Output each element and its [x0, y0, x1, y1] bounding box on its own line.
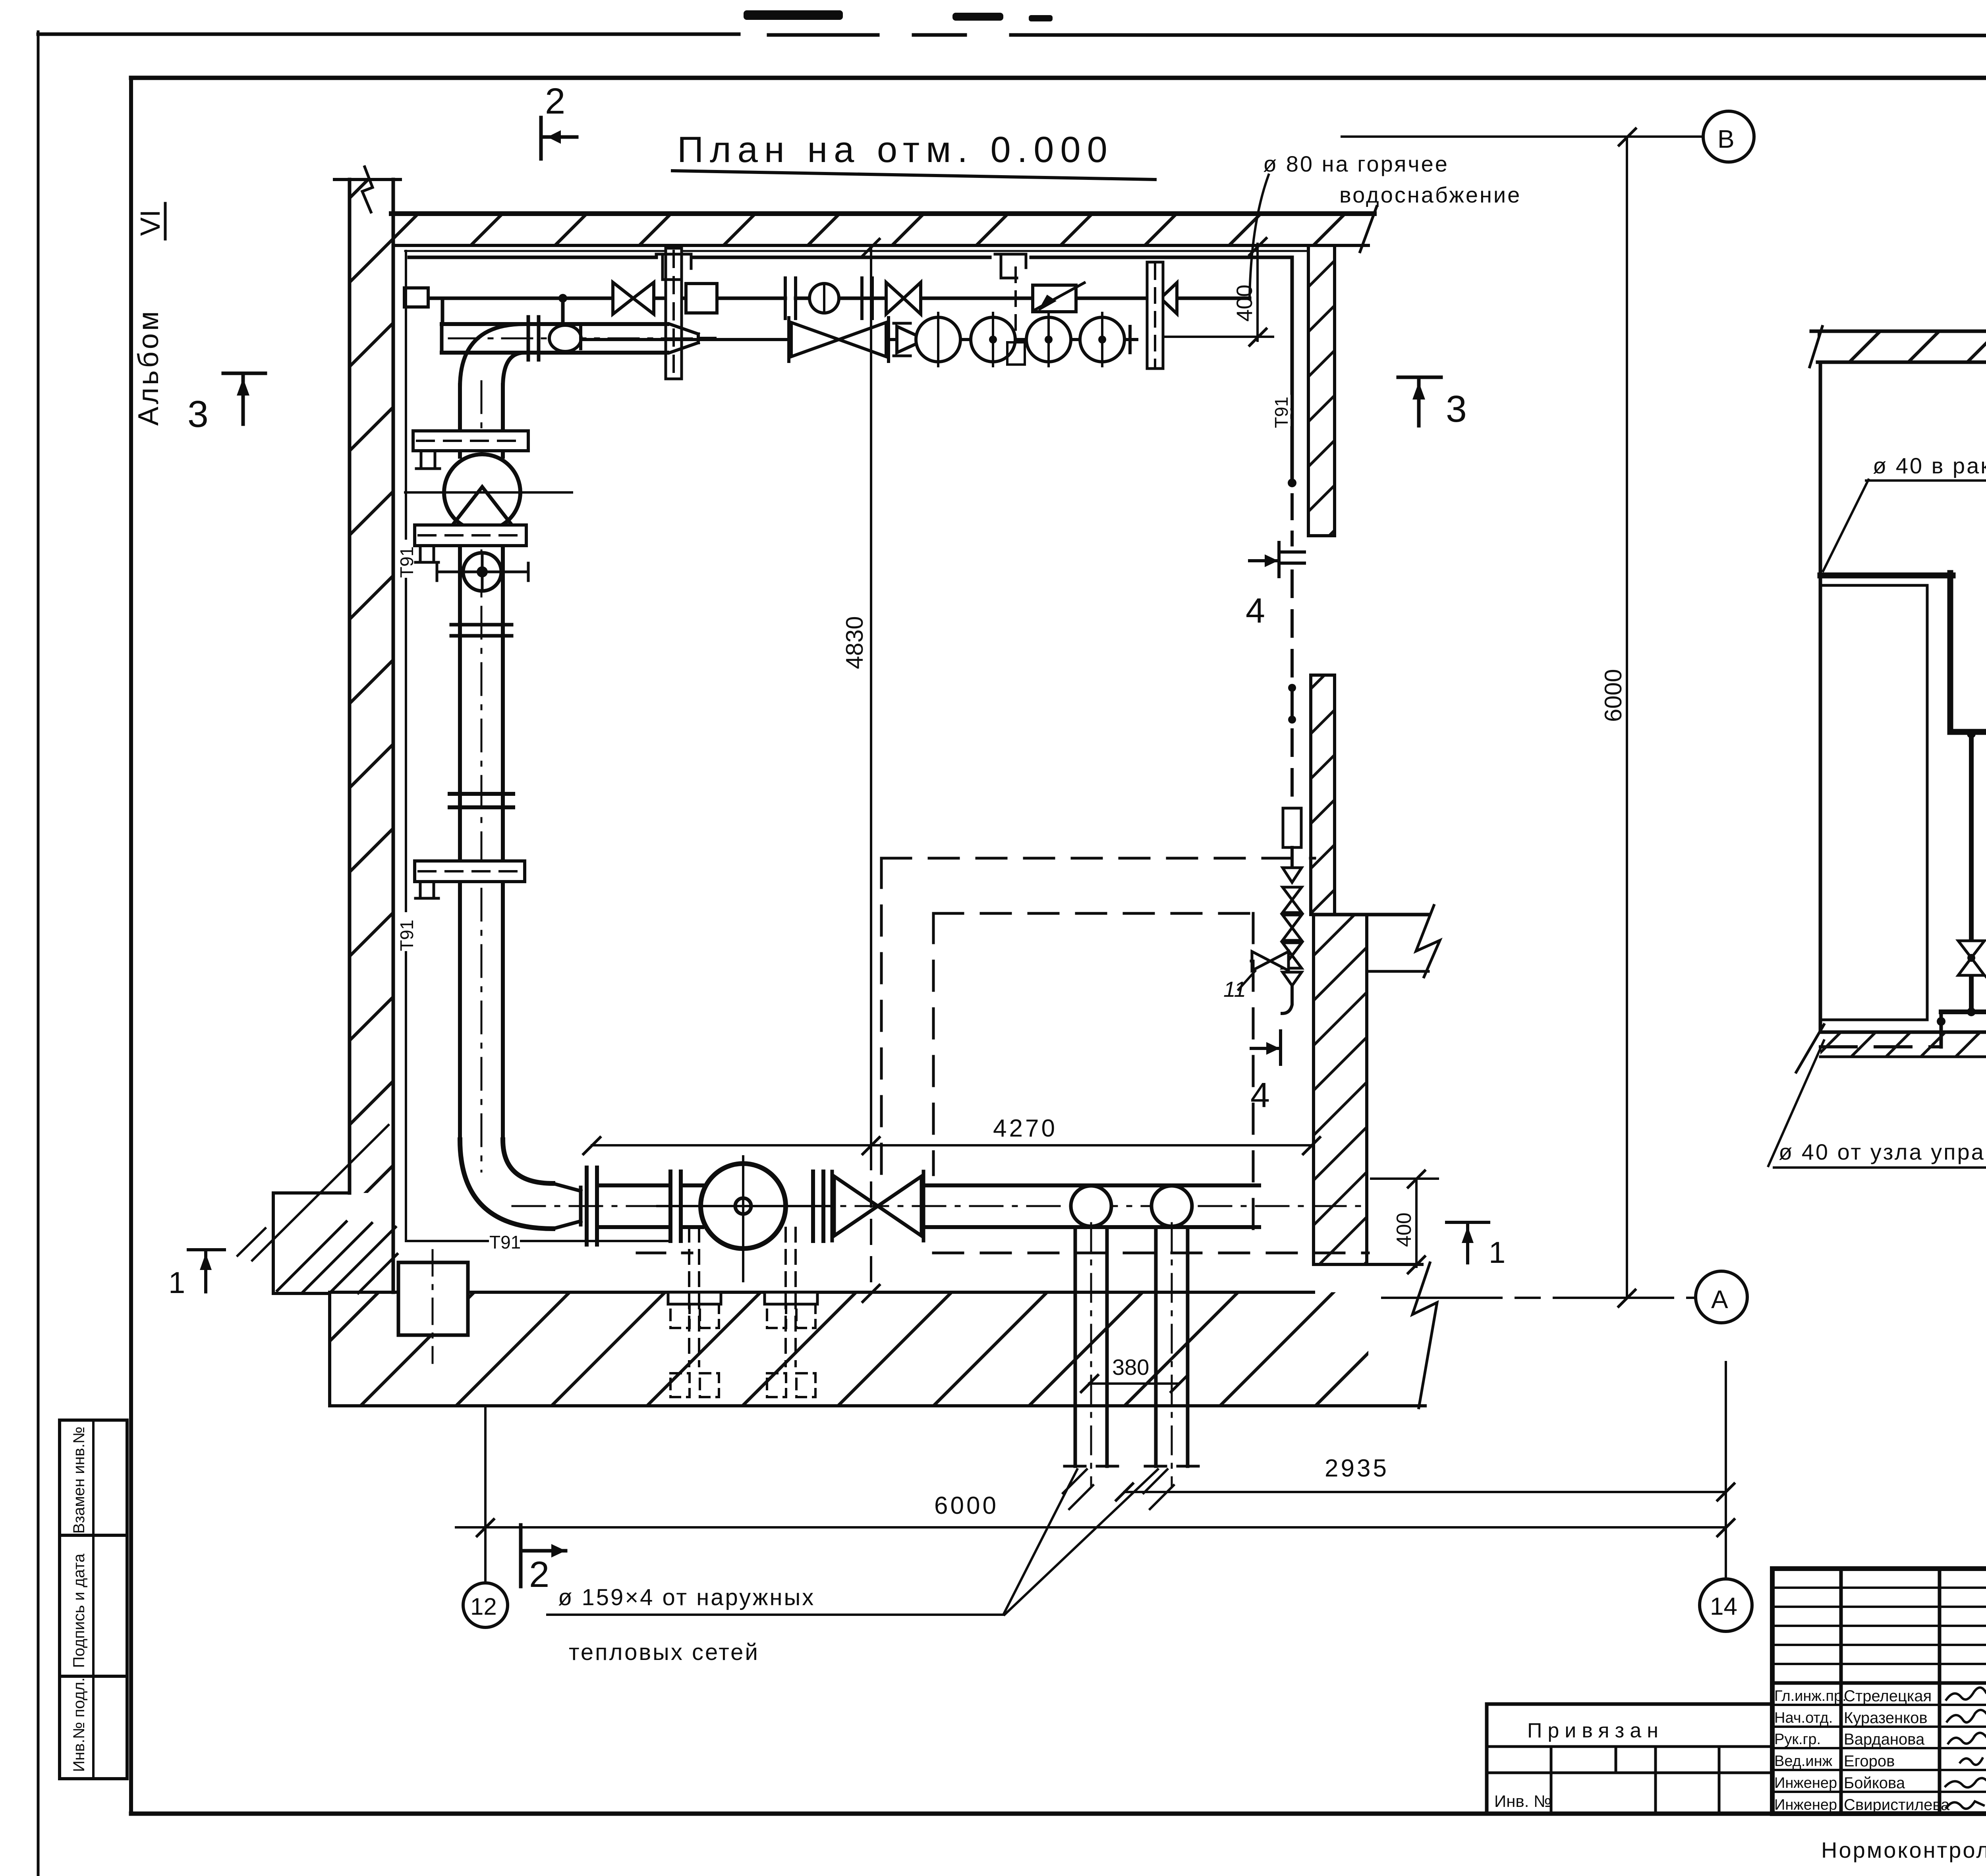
elbow curve to vertical pipe	[460, 324, 524, 387]
section mark 4 lower	[1251, 1047, 1277, 1050]
vertical pipe left run	[458, 385, 462, 457]
underfloor dashed pipe	[1820, 1045, 1941, 1048]
svg-text:Рук.гр.: Рук.гр.	[1774, 1731, 1821, 1748]
flange pair	[784, 278, 787, 318]
svg-text:2: 2	[545, 81, 565, 122]
section floor	[1820, 1031, 1986, 1034]
LEFT-MARGIN	[60, 203, 166, 1779]
margin box: podpis i data	[60, 1535, 127, 1676]
pit outline dashed inner	[933, 912, 1253, 915]
svg-text:Инженер: Инженер	[1774, 1797, 1837, 1813]
sheet edge left	[37, 32, 40, 1876]
scan marks on sheet edge	[744, 10, 843, 20]
svg-text:2935: 2935	[1325, 1455, 1389, 1482]
pit outline dashed outer	[881, 857, 1315, 860]
valve battery line	[581, 338, 1137, 341]
drop elbow circle 2	[1151, 1186, 1192, 1226]
battery inlet oval	[549, 325, 581, 351]
pipe T91 along top wall	[409, 256, 656, 259]
svg-text:ø 40 в раковину: ø 40 в раковину	[1873, 453, 1986, 478]
riser valve 2	[1283, 915, 1302, 940]
flange pair tall	[585, 1168, 589, 1245]
valve on hot water run	[886, 282, 904, 314]
wall-side thin pipe vertical	[405, 251, 407, 538]
svg-text:1: 1	[1489, 1236, 1505, 1270]
riser dashed continuation	[1291, 571, 1294, 808]
svg-text:Вед.инж: Вед.инж	[1774, 1753, 1833, 1770]
flange pair	[860, 278, 864, 318]
dim 4270 horizontal	[592, 1144, 1312, 1146]
svg-text:Инв.№ подл.: Инв.№ подл.	[70, 1677, 88, 1772]
grid axis B	[1342, 135, 1703, 138]
svg-text:Инв. №: Инв. №	[1494, 1792, 1551, 1810]
riser union fitting	[1283, 808, 1301, 847]
dim 6000 right vertical	[1626, 137, 1628, 1298]
section mark 1 right	[1447, 1221, 1489, 1224]
svg-text:Т91: Т91	[489, 1232, 521, 1253]
svg-text:Инженер: Инженер	[1774, 1775, 1837, 1791]
support bracket under elbow	[413, 431, 528, 451]
riser valve 3	[1283, 943, 1302, 968]
floor right break zigzag	[1412, 1263, 1437, 1408]
svg-text:ø 80 на горячее: ø 80 на горячее	[1263, 151, 1449, 176]
gate valve on hot water run	[613, 282, 633, 314]
revision grid columns	[1839, 1569, 1843, 1814]
top wall right break mark	[1360, 207, 1377, 252]
svg-text:Т91: Т91	[396, 920, 417, 951]
pipe stand post right	[1147, 262, 1163, 369]
margin box: vzamen inv	[60, 1420, 127, 1535]
dim 6000 bottom	[456, 1526, 1726, 1529]
hot water pipe run	[407, 297, 613, 300]
pipe T91 riser dashed part	[1291, 495, 1294, 545]
SECTION-VIEW	[1768, 138, 1986, 1168]
svg-text:Нач.отд.: Нач.отд.	[1774, 1710, 1833, 1726]
svg-text:ø 159×4 от наружных: ø 159×4 от наружных	[558, 1585, 815, 1610]
svg-text:6000: 6000	[934, 1492, 999, 1519]
svg-text:4: 4	[1250, 1075, 1270, 1115]
svg-text:Т91: Т91	[1271, 397, 1292, 428]
elbow flange	[527, 317, 530, 360]
pipe T91 right riser solid part	[1291, 257, 1294, 483]
ceiling hanger bracket left	[656, 254, 691, 280]
foundation pad	[398, 1262, 468, 1335]
svg-text:380: 380	[1112, 1355, 1149, 1380]
bottom elbow vertical to horizontal	[460, 1140, 553, 1229]
bottom reducer cone	[553, 1183, 581, 1229]
wall break diagonal	[252, 1125, 388, 1260]
svg-text:3: 3	[1446, 388, 1467, 430]
svg-text:Гл.инж.пр.: Гл.инж.пр.	[1774, 1688, 1847, 1704]
signature squiggles	[1945, 1687, 1986, 1808]
wall-side thin pipe bottom run	[406, 1240, 488, 1242]
floor slab band hatched	[330, 1292, 1368, 1406]
svg-text:ø 40 от узла управлен: ø 40 от узла управления	[1779, 1139, 1986, 1164]
svg-text:Нормоконтролер: Нормоконтролер	[1821, 1837, 1986, 1862]
svg-text:12: 12	[470, 1593, 497, 1620]
grid line 12	[484, 1406, 487, 1584]
flow arrow on run	[1161, 283, 1177, 314]
svg-text:План на отм. 0.000: План на отм. 0.000	[677, 129, 1114, 170]
section left wall	[1819, 362, 1822, 1032]
pump body circle	[701, 1164, 786, 1249]
section mark 3 right	[1398, 376, 1441, 379]
svg-text:4270: 4270	[993, 1115, 1057, 1142]
drain pipe 2 down	[1154, 1227, 1158, 1466]
TITLE-BLOCK	[1487, 1569, 1986, 1871]
instrument on run	[686, 284, 717, 313]
svg-text:400: 400	[1232, 285, 1257, 322]
foundation hatch lines	[277, 1222, 397, 1293]
bottom manifold pipe	[1941, 1009, 1986, 1014]
PLAN-WALLS	[238, 167, 1440, 1408]
pipe stand post	[666, 248, 682, 379]
svg-text:3: 3	[187, 393, 209, 435]
drain pipe 1 down	[1074, 1227, 1077, 1466]
privyazan sub-table	[1487, 1702, 1772, 1706]
battery gate valve	[791, 322, 839, 357]
staff names	[1844, 1687, 1950, 1814]
platform column hatched	[1314, 915, 1367, 1264]
svg-text:Стрелецкая: Стрелецкая	[1844, 1687, 1932, 1705]
water tank	[1820, 585, 1927, 1020]
pipe to drop elbows	[923, 1183, 1259, 1187]
riser flange ticks	[1280, 550, 1304, 554]
svg-text:6000: 6000	[1600, 669, 1627, 722]
dim 2935	[1124, 1491, 1726, 1493]
side stub valve 11	[1251, 960, 1283, 963]
margin box: inv n podl	[60, 1676, 127, 1779]
dim 4830 vertical	[870, 247, 872, 1145]
svg-text:Взамен инв.№: Взамен инв.№	[70, 1426, 88, 1534]
ceiling hanger bracket mid	[995, 254, 1026, 278]
revision grid rows	[1772, 1586, 1986, 1589]
second vertical pipe	[1969, 732, 1974, 941]
drawing frame	[131, 76, 1986, 80]
section ceiling band	[1818, 331, 1986, 362]
svg-text:В: В	[1717, 125, 1735, 153]
svg-text:Куразенков: Куразенков	[1844, 1709, 1928, 1727]
left wall foundation step	[273, 1193, 350, 1293]
tank top pipe d40	[1820, 573, 1953, 579]
tee connector to elbow pipe	[561, 298, 565, 324]
right wall lower column hatched	[1311, 675, 1335, 915]
svg-text:тепловых сетей: тепловых сетей	[569, 1639, 759, 1665]
reducer cone at stand	[670, 324, 698, 353]
dim 400 top right	[1256, 244, 1259, 341]
support bracket below valve	[415, 525, 526, 546]
svg-text:А: А	[1711, 1285, 1728, 1314]
underground dashed pipe	[933, 1252, 1368, 1255]
platform ledge	[1367, 970, 1428, 973]
pump support hanger left	[668, 1292, 721, 1304]
svg-text:11: 11	[1223, 977, 1246, 1002]
battery end tick	[1128, 326, 1132, 353]
wall sleeve	[404, 288, 428, 307]
union coupling on vertical pipe	[450, 792, 513, 796]
svg-text:4830: 4830	[841, 616, 868, 669]
tap circles group	[916, 317, 960, 362]
PLAN-DIMS	[168, 81, 1754, 1665]
staff rows	[1772, 1704, 1986, 1706]
svg-text:14: 14	[1710, 1593, 1737, 1620]
title block outer border	[1772, 1569, 1986, 1814]
left wall top cap and break	[334, 178, 400, 181]
battery cone fitting	[897, 326, 925, 353]
staff labels	[1774, 1688, 1847, 1813]
svg-text:Привязан: Привязан	[1527, 1719, 1664, 1742]
grid axis A	[1382, 1297, 1696, 1299]
top wall band hatched	[393, 214, 1368, 245]
tank drain stub	[1940, 1012, 1943, 1047]
sight glass device	[809, 284, 839, 313]
flange pair on vertical pipe	[451, 623, 512, 627]
floor slab right portion under platform	[1314, 1263, 1422, 1266]
pump support hanger right	[765, 1292, 817, 1304]
dim 400 lower right	[1415, 1179, 1418, 1267]
svg-text:2: 2	[529, 1554, 549, 1595]
svg-text:Егоров: Егоров	[1844, 1752, 1895, 1770]
run corner riser	[441, 298, 444, 324]
svg-text:Варданова: Варданова	[1844, 1731, 1925, 1748]
main pipe to pump	[597, 1183, 670, 1187]
flange pair after pump	[811, 1172, 815, 1241]
check valve box	[1033, 285, 1076, 312]
svg-text:Подпись и дата: Подпись и дата	[70, 1554, 88, 1668]
tap with handwheel	[463, 553, 501, 591]
section mark 2 bottom	[519, 1525, 523, 1586]
section mark 4 upper	[1250, 559, 1276, 562]
svg-text:VI: VI	[135, 210, 166, 236]
riser check fitting	[1283, 868, 1302, 882]
left wall band hatched	[350, 179, 393, 1193]
top wall inner finish line	[405, 250, 1307, 252]
right wall upper column hatched	[1308, 245, 1335, 536]
lower support bracket	[415, 861, 525, 882]
leaders to d159 label	[1004, 1469, 1077, 1614]
drop elbow circle 1	[1071, 1186, 1111, 1226]
svg-text:Бойкова: Бойкова	[1844, 1774, 1905, 1792]
riser valve 1	[1283, 887, 1302, 913]
svg-text:400: 400	[1393, 1212, 1416, 1247]
sheet edge top (broken scan line)	[38, 33, 739, 36]
svg-text:4: 4	[1246, 591, 1265, 630]
riser lower check and drain hook	[1283, 972, 1302, 986]
PLAN-PIPES	[396, 175, 1368, 1615]
valve 17	[1958, 941, 1984, 958]
dim 380 drains	[1089, 1382, 1179, 1385]
grid line 14	[1725, 1362, 1727, 1584]
flange pair	[668, 1172, 672, 1241]
svg-text:1: 1	[168, 1266, 185, 1300]
svg-text:Альбом: Альбом	[133, 309, 164, 426]
svg-text:Свиристилева: Свиристилева	[1844, 1796, 1950, 1814]
svg-text:водоснабжение: водоснабжение	[1339, 182, 1521, 207]
svg-text:Т91: Т91	[396, 546, 417, 578]
elbow pipe horizontal	[442, 322, 667, 326]
gate valve plan circle	[444, 454, 520, 531]
main gate valve bottom run	[834, 1176, 878, 1236]
floor left break	[1796, 1025, 1824, 1072]
leader to d80 label	[1250, 175, 1269, 297]
